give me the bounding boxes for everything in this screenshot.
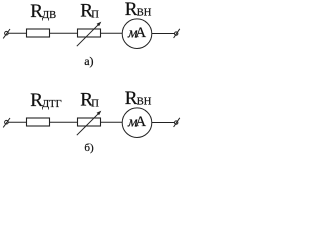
svg-text:ДВ: ДВ [42,10,56,21]
svg-text:А: А [135,114,146,130]
svg-text:ВН: ВН [137,96,152,107]
svg-text:б): б) [84,142,94,154]
svg-text:ВН: ВН [137,7,152,18]
svg-text:а): а) [84,54,93,68]
svg-text:П: П [91,99,99,110]
svg-text:ДТГ: ДТГ [42,99,62,110]
svg-text:А: А [135,25,146,41]
svg-text:П: П [91,10,99,21]
